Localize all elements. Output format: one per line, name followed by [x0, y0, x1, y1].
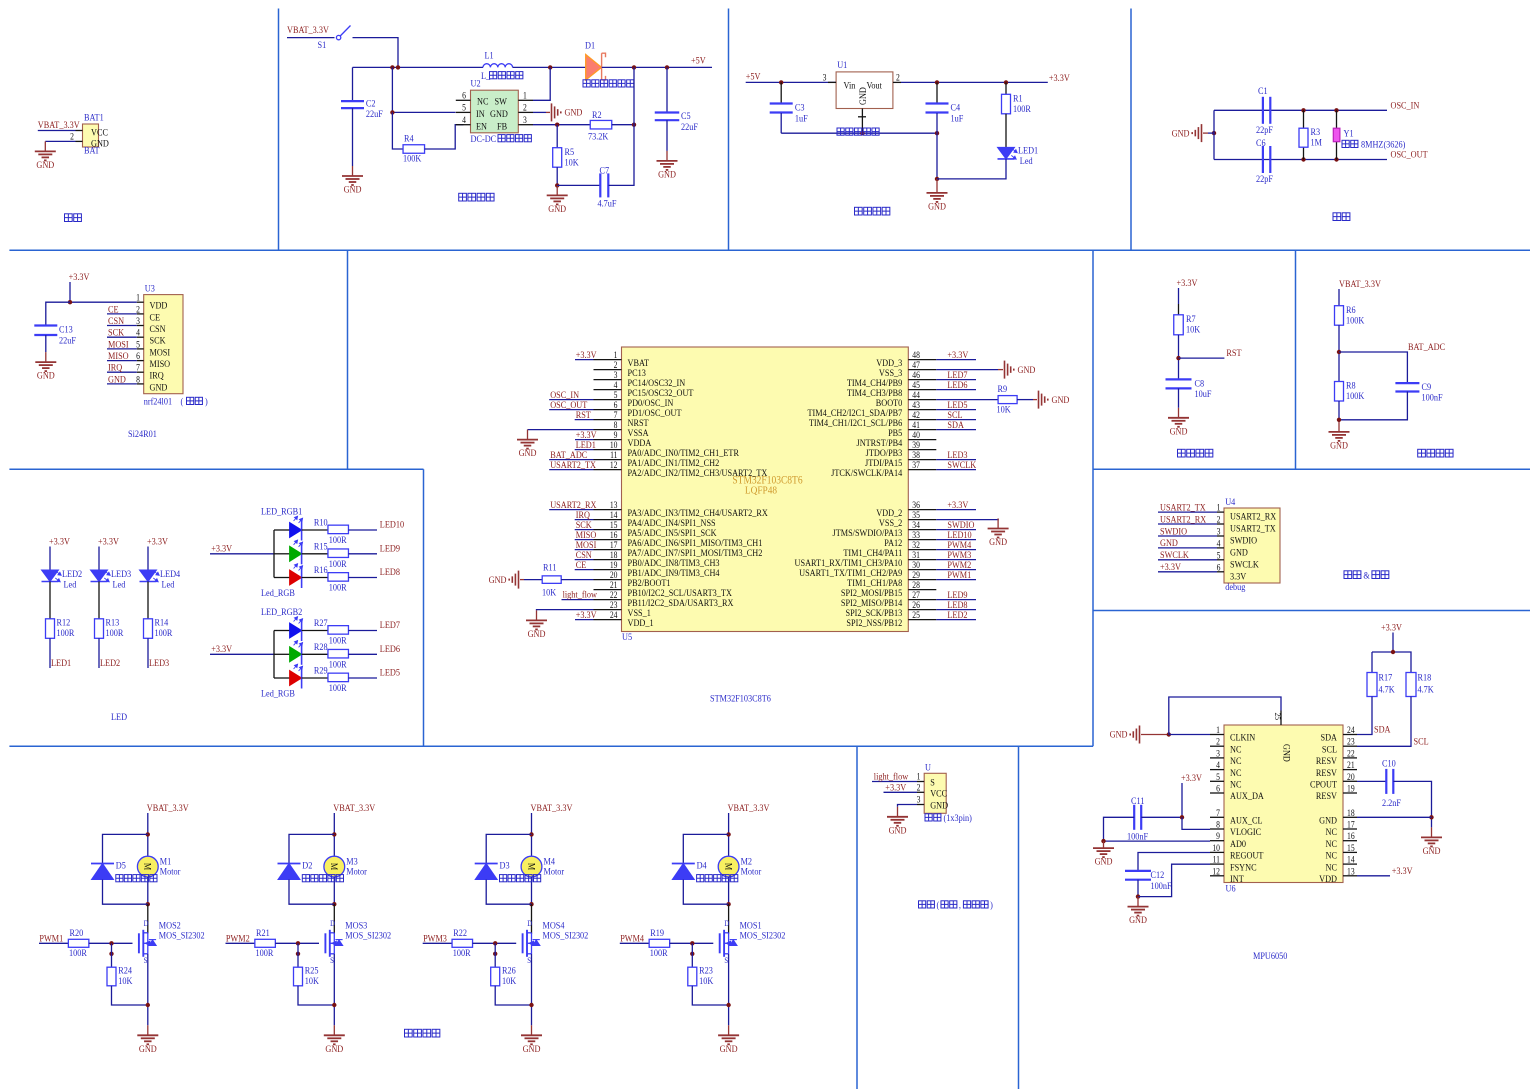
svg-text:3: 3 — [614, 371, 618, 381]
svg-text:+3.3V: +3.3V — [576, 349, 597, 360]
resistor R25 pulldown — [297, 943, 299, 967]
pin 3 PC14/OSC32_IN — [594, 379, 622, 381]
svg-text:U1: U1 — [837, 60, 847, 71]
svg-text:2: 2 — [614, 361, 618, 371]
pin 7 NRST — [594, 419, 622, 421]
svg-text:GND: GND — [344, 184, 362, 195]
pin 1 VBAT — [594, 359, 622, 361]
svg-text:SW: SW — [495, 96, 508, 107]
pin 22 RESV — [1343, 757, 1357, 759]
ground battery — [35, 141, 56, 160]
svg-text:100K: 100K — [1346, 315, 1365, 326]
capacitor C12 — [1125, 871, 1151, 880]
led LED2 — [42, 570, 59, 582]
svg-text:LED8: LED8 — [380, 567, 401, 578]
resistor R22 — [452, 939, 473, 947]
svg-text:45: 45 — [912, 381, 920, 391]
svg-text:LED6: LED6 — [380, 643, 401, 654]
svg-text:3.3V: 3.3V — [1230, 571, 1247, 582]
svg-text:C7: C7 — [600, 165, 610, 176]
net +3.3V pin 24 — [575, 619, 594, 621]
svg-text:14: 14 — [610, 511, 618, 521]
svg-text:LED1: LED1 — [1018, 145, 1038, 156]
svg-text:6: 6 — [136, 352, 140, 362]
svg-text:AUX_CL: AUX_CL — [1230, 815, 1263, 826]
svg-text:C4: C4 — [951, 102, 961, 113]
pin 4 NC — [1210, 769, 1224, 771]
section label optical flow — [919, 901, 935, 908]
svg-text:NC: NC — [1326, 862, 1337, 873]
svg-text:OSC_OUT: OSC_OUT — [1391, 149, 1429, 160]
svg-text:(1x3pin): (1x3pin) — [943, 812, 971, 823]
svg-text:5: 5 — [1217, 551, 1221, 561]
wire resistor to net — [147, 638, 149, 668]
junction — [1301, 157, 1305, 161]
svg-text:35: 35 — [912, 511, 920, 521]
led LED_RGB2 blue — [274, 630, 290, 632]
svg-text:6: 6 — [462, 91, 466, 101]
section label dianchi — [65, 214, 82, 222]
wire VBAT to pin1 — [38, 130, 76, 132]
net PWM3 pin 31 — [936, 559, 976, 561]
wire source — [147, 954, 149, 1026]
svg-text:LED4: LED4 — [160, 568, 181, 579]
pin 40 JNTRST/PB4 — [908, 439, 936, 441]
pin 9 AD0 — [1210, 840, 1224, 842]
net USART2_RX pin 13 — [549, 509, 593, 511]
pin 13 VDD — [1343, 875, 1357, 877]
wire switch to top rail — [353, 38, 399, 68]
svg-text:37: 37 — [912, 461, 920, 471]
wire boot0 to R9 — [936, 399, 998, 401]
ground vss1 — [526, 610, 547, 629]
capacitor C8 — [1166, 379, 1192, 388]
svg-text:D1: D1 — [585, 40, 595, 51]
svg-text:11: 11 — [610, 451, 617, 461]
svg-text:GND: GND — [489, 574, 507, 585]
ground pin2 sideways — [533, 111, 546, 113]
pin 34 JTMS/SWDIO/PA13 — [908, 529, 936, 531]
pin 4 GND — [1217, 547, 1224, 549]
wire resistor to net LED9 — [348, 553, 377, 555]
net RST pin 7 — [575, 419, 594, 421]
section label vdet — [1418, 449, 1453, 457]
svg-text:8: 8 — [1216, 820, 1220, 830]
wire gate — [670, 942, 714, 944]
wire vssa to gnd — [528, 429, 594, 431]
pin 1 S — [917, 781, 924, 783]
pin 44 BOOT0 — [908, 399, 936, 401]
svg-text:38: 38 — [912, 451, 920, 461]
svg-text:GND: GND — [889, 825, 907, 836]
svg-text:U5: U5 — [622, 631, 633, 642]
wire IN rail — [392, 67, 455, 112]
junction below gate — [296, 952, 300, 956]
svg-text:LED3: LED3 — [149, 657, 170, 668]
svg-text:CE: CE — [576, 559, 587, 570]
svg-text:GND: GND — [1095, 856, 1113, 867]
svg-text:2: 2 — [917, 783, 921, 793]
svg-text:Motor: Motor — [544, 866, 565, 877]
net label CE — [107, 313, 137, 315]
wire clkin — [1169, 734, 1210, 736]
pin 22 PB11/I2C2_SDA/USART3_RX — [594, 599, 622, 601]
svg-text:D2: D2 — [302, 860, 312, 871]
pin 29 TIM1_CH1/PA8 — [908, 579, 936, 581]
svg-text:JTCK/SWCLK/PA14: JTCK/SWCLK/PA14 — [831, 467, 903, 478]
svg-text:S: S — [930, 777, 935, 788]
wire pulldown to source node — [112, 986, 148, 1005]
label linear regulator — [837, 128, 879, 135]
svg-text:GND: GND — [1282, 744, 1293, 762]
svg-text:Motor: Motor — [346, 866, 367, 877]
svg-text:8: 8 — [614, 421, 618, 431]
net PWM2 pin 30 — [936, 569, 976, 571]
pin 2 GND stub — [76, 140, 83, 142]
pin 5 MOSI — [137, 348, 144, 350]
svg-text:100R: 100R — [329, 635, 347, 646]
svg-text:VDD: VDD — [150, 300, 168, 311]
resistor R9 — [998, 396, 1017, 404]
pin 31 USART1_RX/TIM1_CH3/PA10 — [908, 559, 936, 561]
svg-text:C3: C3 — [795, 102, 805, 113]
pin 3 stub — [828, 81, 836, 83]
svg-text:M: M — [143, 863, 154, 870]
net SCK pin 15 — [575, 529, 594, 531]
pin 4 — [456, 124, 471, 126]
svg-text:&: & — [1363, 570, 1369, 581]
svg-text:22uF: 22uF — [681, 121, 698, 132]
pin 1 — [518, 99, 533, 101]
net SDA pin 41 — [936, 429, 976, 431]
resistor R7 — [1174, 315, 1184, 335]
svg-text:R9: R9 — [998, 383, 1008, 394]
section label motor drive — [405, 1029, 440, 1037]
svg-text:15: 15 — [610, 521, 618, 531]
svg-text:100R: 100R — [57, 627, 75, 638]
svg-text:SWCLK: SWCLK — [1230, 559, 1259, 570]
svg-text:SCL: SCL — [1322, 744, 1337, 755]
svg-text:GND: GND — [857, 87, 868, 105]
svg-text:RESV: RESV — [1316, 791, 1338, 802]
svg-text:DC-DC: DC-DC — [471, 133, 497, 144]
pin 41 PB5 — [908, 429, 936, 431]
ground MOS3 — [324, 1025, 345, 1044]
svg-text:NC: NC — [1230, 767, 1241, 778]
svg-text:Led: Led — [162, 579, 175, 590]
svg-text:2: 2 — [1216, 737, 1220, 747]
capacitor C2 — [352, 67, 354, 100]
net PWM1 pin 29 — [936, 579, 976, 581]
wire drain — [531, 904, 533, 934]
pin 14 NC — [1343, 863, 1357, 865]
svg-text:D: D — [527, 918, 532, 928]
svg-text:light_flow: light_flow — [874, 771, 909, 782]
svg-text:USART2_TX: USART2_TX — [1230, 523, 1276, 534]
svg-text:SDA: SDA — [1320, 732, 1337, 743]
svg-text:NC: NC — [1326, 838, 1337, 849]
svg-text:VBAT_3.3V: VBAT_3.3V — [38, 120, 80, 131]
svg-text:73.2K: 73.2K — [588, 131, 609, 142]
junction — [1334, 108, 1338, 112]
pin 6 3.3V — [1217, 571, 1224, 573]
resistor R23 pulldown — [691, 943, 693, 967]
header U — [924, 773, 946, 813]
mosfet MOS4 — [523, 930, 532, 957]
net PWM4 pin 32 — [936, 549, 976, 551]
ground vss2 — [988, 519, 1009, 538]
net GND — [1158, 547, 1217, 549]
wire R7 to node — [1178, 335, 1180, 379]
svg-text:LED3: LED3 — [111, 568, 132, 579]
wire led to resistor — [302, 529, 328, 531]
wire pulldown to source node — [298, 986, 334, 1005]
svg-text:GND: GND — [37, 370, 55, 381]
led LED_RGB2 green — [274, 653, 290, 655]
section label boost — [459, 193, 494, 201]
svg-text:VBAT_3.3V: VBAT_3.3V — [531, 802, 573, 813]
wire SW pin1 to rail — [533, 67, 550, 100]
wire drain — [147, 904, 149, 934]
net MOSI pin 17 — [575, 549, 594, 551]
svg-text:GND: GND — [1160, 538, 1178, 549]
svg-text:8: 8 — [136, 375, 140, 385]
pin 37 JTCK/SWCLK/PA14 — [908, 469, 936, 471]
svg-text:4.7K: 4.7K — [1379, 684, 1396, 695]
net +3.3V vdd pin13 — [1357, 875, 1390, 877]
svg-text:R22: R22 — [453, 927, 467, 938]
wire to U3 vdd — [70, 301, 137, 303]
svg-text:19: 19 — [610, 561, 618, 571]
svg-text:21: 21 — [1347, 761, 1355, 771]
junction below gate — [493, 952, 497, 956]
wire pulldown to source node — [692, 986, 728, 1005]
svg-text:R7: R7 — [1186, 313, 1196, 324]
svg-text:R14: R14 — [155, 617, 169, 628]
svg-text:1: 1 — [136, 293, 140, 303]
resistor R28 — [328, 649, 349, 658]
svg-text:SDA: SDA — [947, 419, 964, 430]
net SWDIO — [1158, 535, 1217, 537]
svg-text:R10: R10 — [314, 517, 328, 528]
svg-text:GND: GND — [490, 108, 508, 119]
wire C4 bus down to gnd — [936, 133, 938, 179]
inductor L1 — [483, 64, 513, 68]
svg-text:29: 29 — [912, 571, 920, 581]
svg-text:10uF: 10uF — [1195, 388, 1212, 399]
capacitor C11 — [1134, 805, 1141, 830]
svg-text:32: 32 — [912, 541, 920, 551]
svg-text:40: 40 — [912, 431, 920, 441]
schottky diode D1 — [586, 55, 602, 81]
wire C11 left to gnd — [1104, 817, 1135, 841]
wire motor to drain node — [333, 877, 335, 904]
svg-text:5: 5 — [1216, 772, 1220, 782]
svg-text:R21: R21 — [256, 927, 270, 938]
svg-text:16: 16 — [610, 531, 618, 541]
wire to C13 — [46, 302, 70, 325]
svg-text:100nF: 100nF — [1422, 392, 1443, 403]
pin 9 VDDA — [594, 439, 622, 441]
pin 21 RESV — [1343, 769, 1357, 771]
wire to motor — [531, 834, 533, 856]
section label serial — [1344, 571, 1361, 579]
svg-text:27: 27 — [912, 591, 920, 601]
svg-text:24: 24 — [1347, 725, 1355, 735]
svg-text:22pF: 22pF — [1256, 124, 1273, 135]
wire led to resistor — [98, 582, 100, 619]
svg-text:D4: D4 — [697, 860, 708, 871]
pin 2 NC — [1210, 745, 1224, 747]
svg-text:RST: RST — [576, 409, 592, 420]
svg-text:SCK: SCK — [150, 335, 166, 346]
svg-text:2: 2 — [523, 103, 527, 113]
svg-text:PWM3: PWM3 — [423, 933, 447, 944]
net light_flow — [562, 599, 594, 601]
svg-text:GND: GND — [139, 1043, 157, 1054]
pin 8 VLOGIC — [1210, 828, 1224, 830]
svg-text:L1: L1 — [485, 50, 494, 61]
svg-text:STM32F103C8T6: STM32F103C8T6 — [710, 693, 771, 704]
svg-text:GND: GND — [523, 1043, 541, 1054]
crystal Y1 — [1336, 110, 1338, 159]
pin 39 JTDO/PB3 — [908, 449, 936, 451]
svg-text:1uF: 1uF — [951, 113, 964, 124]
svg-text:PWM4: PWM4 — [620, 933, 644, 944]
svg-text:C12: C12 — [1151, 869, 1165, 880]
svg-text:): ) — [990, 899, 993, 910]
svg-text:10: 10 — [610, 441, 618, 451]
resistor R2 — [590, 120, 612, 129]
svg-text:20: 20 — [1347, 772, 1355, 782]
net MISO pin 16 — [575, 539, 594, 541]
svg-text:3: 3 — [1217, 527, 1221, 537]
resistor R14 — [144, 619, 153, 639]
resistor R12 — [46, 619, 55, 639]
svg-text:GND: GND — [519, 448, 537, 459]
net LED5 pin 43 — [936, 409, 976, 411]
ground vssa — [517, 430, 538, 449]
capacitor C4 — [936, 82, 938, 103]
svg-text:NC: NC — [1230, 779, 1241, 790]
wire source — [531, 954, 533, 1026]
pin 48 VDD_3 — [908, 359, 936, 361]
pin 33 PA12 — [908, 539, 936, 541]
net +3.3V pin 9 — [575, 439, 594, 441]
pin 36 VDD_2 — [908, 509, 936, 511]
svg-text:LED: LED — [111, 711, 127, 722]
wire led to resistor — [49, 582, 51, 619]
net LED7 pin 46 — [936, 379, 976, 381]
pin 21 PB10/I2C2_SCL/USART3_TX — [594, 589, 622, 591]
wire top rail — [353, 66, 484, 68]
svg-text:GND: GND — [1170, 426, 1188, 437]
svg-text:VBAT_3.3V: VBAT_3.3V — [728, 802, 770, 813]
svg-text:10K: 10K — [997, 404, 1012, 415]
capacitor C1 — [1263, 97, 1270, 124]
svg-text:Led: Led — [1020, 155, 1033, 166]
svg-text:GND: GND — [928, 201, 946, 212]
wire led to resistor — [302, 653, 328, 655]
svg-text:REGOUT: REGOUT — [1230, 850, 1264, 861]
svg-text:C11: C11 — [1131, 795, 1144, 806]
resistor R20 — [68, 939, 89, 947]
section label crystal — [1333, 213, 1350, 221]
svg-text:6: 6 — [1216, 784, 1220, 794]
svg-text:2: 2 — [896, 73, 900, 83]
pin 6 PD1/OSC_OUT — [594, 409, 622, 411]
pin 8 VSSA — [594, 429, 622, 431]
resistor R11 — [542, 576, 561, 584]
svg-text:PWM1: PWM1 — [39, 933, 63, 944]
pin 16 PA6/ADC_IN6/SPI1_MISO/TIM3_CH1 — [594, 539, 622, 541]
svg-text:+3.3V: +3.3V — [947, 349, 968, 360]
svg-text:100R: 100R — [329, 659, 347, 670]
svg-text:LQFP48: LQFP48 — [745, 485, 777, 497]
svg-text:,: , — [959, 899, 961, 910]
svg-text:R12: R12 — [57, 617, 71, 628]
wire gate — [89, 942, 133, 944]
svg-text:GND: GND — [548, 203, 566, 214]
resistor R19 — [649, 939, 670, 947]
svg-text:VBAT_3.3V: VBAT_3.3V — [333, 802, 375, 813]
svg-text:GND: GND — [528, 628, 546, 639]
wire vss1 to gnd — [537, 609, 594, 612]
pin 3 — [518, 124, 533, 126]
svg-text:NC: NC — [477, 96, 488, 107]
wire crystal left vertical — [1213, 110, 1215, 159]
svg-text:31: 31 — [912, 551, 920, 561]
capacitor C3 — [780, 82, 782, 103]
svg-text:1: 1 — [1216, 725, 1220, 735]
pin 18 PB0/ADC_IN8/TIM3_CH3 — [594, 559, 622, 561]
svg-text:C13: C13 — [59, 324, 73, 335]
svg-text:19: 19 — [1347, 784, 1355, 794]
svg-text:D: D — [144, 918, 149, 928]
svg-text:100R: 100R — [329, 582, 347, 593]
net LED8 pin 26 — [936, 609, 976, 611]
net SCL pin 42 — [936, 419, 976, 421]
capacitor C9 — [1395, 383, 1419, 391]
imu U6 body — [1224, 725, 1343, 883]
svg-text:1uF: 1uF — [795, 113, 808, 124]
svg-text:VBAT_3.3V: VBAT_3.3V — [287, 25, 329, 36]
svg-text:S: S — [527, 955, 531, 965]
DC-DC chip U2 — [471, 90, 519, 133]
net LED2 pin 25 — [936, 619, 976, 621]
svg-text:FSYNC: FSYNC — [1230, 862, 1257, 873]
svg-text:100R: 100R — [453, 947, 471, 958]
svg-text:23: 23 — [610, 601, 618, 611]
wire regout to C12 — [1138, 853, 1210, 871]
svg-text:R20: R20 — [70, 927, 84, 938]
svg-text:IN: IN — [476, 108, 485, 119]
svg-text:+3.3V: +3.3V — [1181, 772, 1202, 783]
wire fsync — [1138, 864, 1210, 896]
svg-text:7: 7 — [136, 363, 140, 373]
pin 6 AUX_DA — [1210, 792, 1224, 794]
wire R5 to gnd — [556, 167, 558, 185]
wire resistor to net — [98, 638, 100, 668]
pin 10 REGOUT — [1210, 851, 1224, 853]
wire R6 to node — [1338, 325, 1340, 381]
svg-text:9: 9 — [614, 431, 618, 441]
svg-text:36: 36 — [912, 501, 920, 511]
svg-text:1: 1 — [917, 772, 921, 782]
svg-text:10K: 10K — [1186, 324, 1201, 335]
svg-text:GND: GND — [1230, 547, 1248, 558]
svg-text:Motor: Motor — [160, 866, 181, 877]
